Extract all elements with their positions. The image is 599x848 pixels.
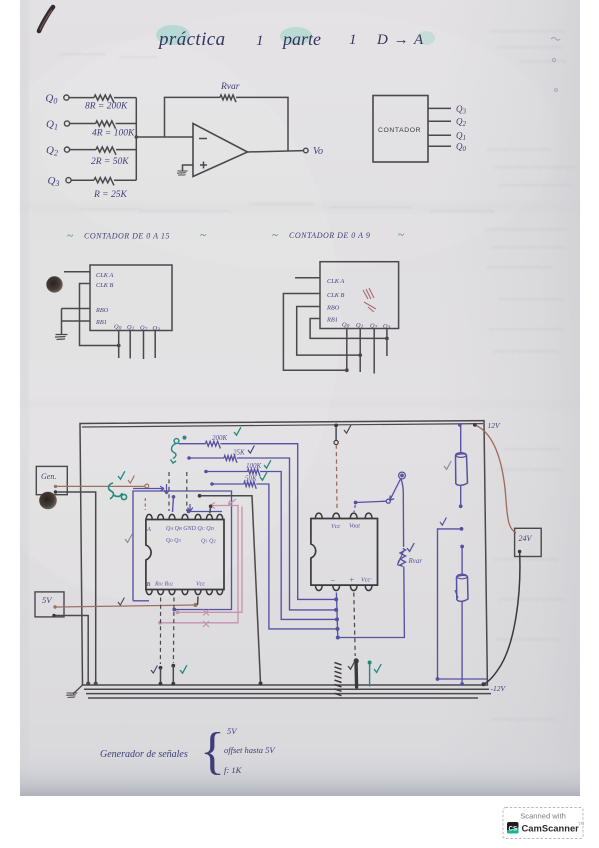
svg-text:~: ~ — [398, 229, 404, 241]
svg-text:CS: CS — [508, 826, 517, 833]
purple stub arrow from loop — [133, 486, 164, 491]
ground at op-amp + input — [177, 165, 193, 175]
red scribble inside counter 9 — [363, 288, 376, 312]
svg-text:práctica: práctica — [157, 29, 226, 50]
counter output Q2 — [428, 117, 467, 129]
resistor 50K — [210, 475, 336, 629]
svg-text:12V: 12V — [488, 421, 502, 430]
counter 7490 box (0 to 9) — [320, 262, 399, 329]
thick black stroke near bottom — [354, 660, 358, 687]
input Q2 — [46, 145, 70, 158]
resistor 200K — [179, 434, 335, 599]
feedback wire with resistor Rvar — [165, 82, 289, 151]
IC2 op-amp DIP package — [311, 519, 378, 586]
purple loop around IC1 — [133, 491, 232, 611]
punch hole lower — [39, 492, 57, 510]
pink x marks — [203, 610, 209, 628]
brown dashes to IC1 pin1 — [144, 498, 146, 510]
counter 7493 box (0 to 15) — [90, 265, 172, 331]
input Q1 — [46, 119, 70, 132]
pink reset loop outer — [158, 503, 238, 625]
svg-text:Gen.: Gen. — [41, 472, 56, 481]
Vcc pin brown junction — [197, 597, 200, 606]
dashed verticals above IC1 — [168, 472, 170, 511]
resistor 4R = 100K — [70, 121, 137, 139]
output wire Vo — [248, 146, 324, 157]
IC1 bottom pins — [146, 590, 223, 595]
pink reset loop inner — [176, 507, 242, 615]
IC1 pin labels — [146, 526, 216, 588]
svg-text:24V: 24V — [519, 534, 533, 543]
5V box — [35, 592, 64, 617]
svg-text:~: ~ — [272, 230, 278, 242]
ground bottom-left — [73, 685, 83, 694]
pink arrow near IC1 — [229, 499, 237, 506]
purple pin stub on loop top — [172, 495, 176, 512]
svg-text:Q0: Q0 — [114, 324, 122, 332]
svg-text:RB1: RB1 — [95, 319, 107, 326]
input Q0 — [45, 93, 69, 106]
svg-text:CONTADOR: CONTADOR — [378, 127, 421, 134]
svg-text:200K: 200K — [212, 434, 228, 442]
IC2 pin labels — [330, 523, 372, 585]
Rvar potentiometer branch — [336, 479, 423, 640]
svg-text:CLK A: CLK A — [96, 272, 113, 279]
resistor 100K — [204, 462, 335, 619]
svg-text:CLK A: CLK A — [327, 278, 344, 285]
resistor 25K — [187, 449, 334, 610]
wire RBO to Q1 counter9 — [297, 307, 361, 356]
pin labels counter 9 — [326, 278, 391, 331]
wire Gen ground (black) — [57, 492, 95, 684]
wire CLKA input counter9 — [295, 277, 320, 279]
svg-text:D → A: D → A — [376, 32, 424, 48]
svg-text:Rvar: Rvar — [220, 82, 240, 92]
svg-text:parte: parte — [281, 29, 321, 49]
svg-text:1: 1 — [349, 32, 357, 48]
switch at IC2 (purple) — [386, 472, 405, 503]
svg-text:2R = 50K: 2R = 50K — [91, 157, 129, 167]
wire CLKA input — [64, 271, 90, 273]
wire cap branch to rail via left vertical — [436, 527, 487, 681]
note generador de senales — [100, 723, 276, 780]
wire bus to op-amp — [136, 136, 193, 138]
title contador de 0 a 9 — [272, 229, 404, 242]
teal wire bottom — [368, 661, 372, 687]
wire RB1 to Q3 counter9 — [310, 319, 387, 339]
svg-text:50K: 50K — [245, 475, 257, 483]
teal probe squiggle left — [109, 483, 127, 500]
svg-text:{: { — [200, 723, 225, 780]
svg-text:Q0: Q0 — [342, 322, 350, 330]
faint pen marks right margin — [551, 38, 560, 92]
svg-text:8R = 200K: 8R = 200K — [85, 102, 128, 112]
wire +12V to 24V box (brown curved) — [475, 425, 516, 533]
Gen box — [36, 466, 67, 494]
wire CLKB to Q0 — [80, 284, 119, 346]
bottom scribble cluster — [335, 663, 342, 696]
svg-text:Vout: Vout — [349, 523, 360, 530]
24V box — [515, 528, 542, 556]
svg-text:QA QB GND QC QD: QA QB GND QC QD — [166, 526, 215, 532]
resistor 2R = 50K — [70, 147, 137, 167]
counter output Q3 — [428, 104, 467, 116]
outer breadboard border — [80, 421, 487, 685]
capacitor branch 1 (right) — [455, 425, 467, 508]
summing bus wire — [135, 98, 137, 181]
CamScanner badge — [503, 808, 584, 839]
wire 5V ground (black) — [56, 616, 89, 684]
svg-text:CLK B: CLK B — [96, 282, 113, 289]
wires RBO RB1 to ground — [62, 309, 91, 335]
wire 5V supply (brown) — [56, 605, 196, 607]
svg-text:CLK B: CLK B — [327, 292, 344, 299]
counter output Q0 — [428, 142, 467, 154]
black GND-pin wire to rail — [198, 494, 263, 686]
check left of IC1 — [125, 534, 132, 542]
svg-text:CONTADOR DE 0 A 15: CONTADOR DE 0 A 15 — [84, 232, 170, 241]
svg-text:~: ~ — [67, 230, 73, 242]
IC1 7493 DIP package — [146, 520, 224, 590]
pen mark top-left corner — [39, 7, 53, 31]
svg-text:Generador de señales: Generador de señales — [100, 749, 188, 760]
bleed-through text (faint) — [60, 31, 576, 720]
svg-text:25K: 25K — [233, 449, 245, 457]
svg-text:RBO: RBO — [95, 307, 109, 314]
resistor R = 25K — [71, 178, 136, 200]
title contador de 0 a 15 — [67, 230, 206, 243]
wire to switch — [354, 501, 387, 505]
bottom supply rails — [84, 689, 491, 698]
svg-text:RB1: RB1 — [326, 317, 338, 324]
IC2 bottom pins — [315, 585, 372, 590]
brown dashed vertical to IC2 — [334, 427, 338, 510]
output stubs counter9 — [347, 329, 387, 374]
svg-text:Rvar: Rvar — [408, 557, 423, 565]
svg-text:RBO: RBO — [326, 305, 340, 312]
counter block CONTADOR — [373, 96, 428, 163]
blue arrow down (IC1 pin feed) — [164, 484, 169, 494]
purple horizontal above IC1 pins — [187, 510, 222, 514]
svg-text:~: ~ — [200, 230, 206, 242]
svg-text:Vo: Vo — [313, 146, 323, 157]
svg-text:4R = 100K: 4R = 100K — [92, 129, 135, 139]
svg-text:1: 1 — [256, 33, 264, 49]
resistor 8R = 200K — [69, 95, 136, 112]
wire CLKB to Q0 counter9 — [283, 294, 346, 371]
junction dots on +12V rail — [334, 424, 338, 428]
svg-text:100K: 100K — [246, 462, 262, 470]
counter output Q1 — [428, 131, 466, 143]
svg-text:CONTADOR DE 0 A 9: CONTADOR DE 0 A 9 — [289, 231, 370, 240]
svg-text:Vcc: Vcc — [331, 523, 341, 530]
IC1 top pins — [146, 514, 223, 519]
svg-text:Q3: Q3 — [153, 325, 161, 333]
svg-text:B: B — [147, 581, 151, 588]
output stubs counter15 — [119, 331, 156, 360]
input Q3 — [48, 175, 72, 188]
title text — [157, 29, 424, 50]
IC2 minus-pin column — [336, 593, 337, 638]
switch (teal) at resistor bank input — [171, 439, 179, 463]
title highlighter marks — [156, 25, 190, 45]
op-amp U1 — [193, 124, 248, 177]
svg-text:R = 25K: R = 25K — [93, 190, 127, 200]
svg-text:offset hasta 5V: offset hasta 5V — [224, 745, 276, 755]
dashed vertical IC2 pin3 — [354, 505, 355, 512]
dashed columns below IC1 to rails — [159, 598, 161, 665]
svg-text:Scanned with: Scanned with — [520, 812, 566, 821]
svg-text:-12V: -12V — [491, 684, 507, 693]
capacitor branch 2 (right) — [456, 545, 468, 686]
wire Gen signal (brown) — [57, 485, 145, 487]
pin labels counter 15 — [95, 272, 160, 333]
svg-text:CamScanner: CamScanner — [522, 823, 580, 834]
IC2 top pins — [315, 513, 372, 518]
svg-text:+: + — [349, 576, 354, 585]
svg-text:A: A — [146, 526, 151, 533]
svg-text:Vcc: Vcc — [196, 582, 205, 588]
black pin6 stub — [209, 505, 213, 514]
svg-text:f: 1K: f: 1K — [224, 765, 243, 775]
punch hole upper — [46, 276, 62, 292]
wire 24V to -12V rail (black curved) — [484, 552, 520, 685]
svg-text:TM: TM — [578, 821, 584, 826]
ground counter15 — [55, 335, 68, 340]
